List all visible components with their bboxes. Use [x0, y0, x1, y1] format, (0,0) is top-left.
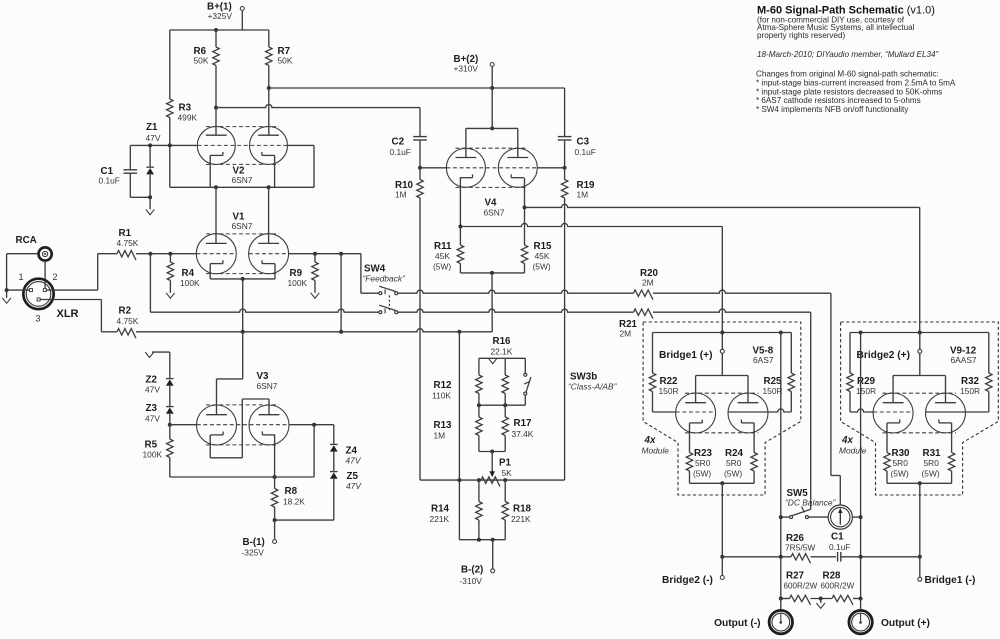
- svg-text:45K: 45K: [435, 251, 450, 261]
- svg-text:C2: C2: [392, 137, 405, 148]
- svg-text:Bridge1 (-): Bridge1 (-): [925, 575, 976, 586]
- svg-text:0.1uF: 0.1uF: [390, 147, 411, 157]
- svg-text:R8: R8: [285, 486, 298, 497]
- svg-text:1M: 1M: [395, 190, 407, 200]
- svg-text:(5W): (5W): [724, 469, 742, 479]
- svg-text:221K: 221K: [511, 514, 531, 524]
- svg-text:2M: 2M: [642, 278, 654, 288]
- svg-text:“DC Balance”: “DC Balance”: [785, 498, 836, 508]
- svg-text:47V: 47V: [145, 414, 160, 424]
- svg-text:47V: 47V: [145, 385, 160, 395]
- svg-text:100K: 100K: [288, 278, 308, 288]
- svg-text:(5W): (5W): [891, 469, 909, 479]
- svg-text:0.1uF: 0.1uF: [99, 176, 120, 186]
- svg-text:Changes from original M-60 sig: Changes from original M-60 signal-path s…: [756, 70, 939, 79]
- svg-text:5R0: 5R0: [924, 458, 940, 468]
- svg-text:22.1K: 22.1K: [491, 347, 513, 357]
- svg-text:R16: R16: [493, 336, 512, 347]
- svg-text:4.75K: 4.75K: [117, 316, 139, 326]
- svg-text:“Class-A/AB”: “Class-A/AB”: [568, 382, 618, 392]
- svg-text:150R: 150R: [763, 386, 783, 396]
- svg-text:47V: 47V: [146, 133, 161, 143]
- svg-text:R18: R18: [513, 504, 532, 515]
- svg-text:(5W): (5W): [922, 469, 940, 479]
- svg-text:6SN7: 6SN7: [232, 221, 253, 231]
- svg-text:B-(2): B-(2): [461, 565, 483, 576]
- svg-text:+310V: +310V: [454, 64, 479, 74]
- svg-text:RCA: RCA: [16, 235, 37, 246]
- svg-text:37.4K: 37.4K: [512, 429, 534, 439]
- svg-text:1: 1: [19, 272, 24, 282]
- svg-text:5R0: 5R0: [893, 458, 909, 468]
- svg-text:0.1uF: 0.1uF: [829, 542, 850, 552]
- svg-text:100K: 100K: [143, 450, 163, 460]
- svg-text:(5W): (5W): [693, 469, 711, 479]
- svg-text:Module: Module: [642, 446, 670, 456]
- svg-text:* 6AS7 cathode resistors incre: * 6AS7 cathode resistors increased to 5-…: [756, 96, 921, 105]
- svg-text:6AS7: 6AS7: [753, 355, 774, 365]
- svg-text:47V: 47V: [346, 456, 362, 466]
- svg-text:150R: 150R: [659, 386, 679, 396]
- svg-text:C1: C1: [831, 532, 844, 543]
- svg-text:C3: C3: [577, 137, 590, 148]
- svg-text:property rights reserved): property rights reserved): [757, 31, 845, 40]
- svg-text:R13: R13: [434, 420, 453, 431]
- svg-text:R14: R14: [431, 504, 450, 515]
- svg-text:600R/2W: 600R/2W: [821, 582, 855, 591]
- svg-text:(5W): (5W): [533, 262, 551, 272]
- svg-text:499K: 499K: [178, 113, 198, 123]
- svg-text:4.75K: 4.75K: [117, 238, 139, 248]
- svg-text:6SN7: 6SN7: [484, 208, 505, 218]
- svg-text:+325V: +325V: [208, 11, 233, 21]
- svg-text:Output (-): Output (-): [714, 618, 760, 629]
- svg-text:1M: 1M: [434, 431, 446, 441]
- svg-text:100K: 100K: [180, 278, 200, 288]
- svg-text:6SN7: 6SN7: [257, 381, 278, 391]
- svg-text:-325V: -325V: [242, 548, 265, 558]
- svg-text:R28: R28: [823, 571, 842, 582]
- svg-text:Module: Module: [839, 446, 867, 456]
- svg-text:Bridge2 (-): Bridge2 (-): [662, 575, 713, 586]
- svg-text:6SN7: 6SN7: [232, 175, 253, 185]
- svg-text:Bridge2 (+): Bridge2 (+): [857, 350, 911, 361]
- svg-text:2M: 2M: [620, 329, 632, 339]
- svg-text:7R5/5W: 7R5/5W: [785, 543, 815, 553]
- svg-text:2: 2: [53, 272, 58, 282]
- svg-text:110K: 110K: [432, 391, 451, 401]
- svg-text:18.2K: 18.2K: [283, 497, 305, 507]
- svg-text:1M: 1M: [577, 190, 589, 200]
- svg-text:0.1uF: 0.1uF: [575, 147, 596, 157]
- svg-text:P1: P1: [499, 458, 512, 469]
- svg-text:150R: 150R: [960, 386, 980, 396]
- svg-text:3: 3: [36, 314, 41, 324]
- svg-text:“Feedback”: “Feedback”: [363, 274, 407, 284]
- svg-text:600R/2W: 600R/2W: [784, 582, 818, 591]
- svg-text:5R0: 5R0: [695, 458, 711, 468]
- svg-text:Z3: Z3: [146, 403, 158, 414]
- svg-text:* input-stage bias-current inc: * input-stage bias-current increased fro…: [756, 78, 956, 87]
- svg-text:5K: 5K: [502, 468, 513, 478]
- svg-text:R2: R2: [119, 306, 132, 317]
- svg-text:50K: 50K: [194, 56, 209, 66]
- svg-text:150R: 150R: [856, 386, 876, 396]
- svg-text:-310V: -310V: [460, 576, 483, 586]
- svg-text:XLR: XLR: [57, 308, 79, 320]
- svg-text:Bridge1 (+): Bridge1 (+): [659, 350, 713, 361]
- svg-text:4x: 4x: [644, 435, 656, 446]
- svg-text:Z1: Z1: [146, 122, 158, 133]
- svg-text:221K: 221K: [430, 514, 450, 524]
- svg-text:* SW4 implements NFB on/off fu: * SW4 implements NFB on/off functionalit…: [756, 105, 909, 114]
- svg-text:45K: 45K: [535, 251, 550, 261]
- svg-text:Output (+): Output (+): [881, 618, 930, 629]
- svg-text:18-March-2010; DIYaudio member: 18-March-2010; DIYaudio member, “Mullard…: [757, 50, 938, 59]
- svg-text:R27: R27: [786, 571, 805, 582]
- svg-text:6AAS7: 6AAS7: [951, 355, 977, 365]
- svg-text:47V: 47V: [346, 481, 362, 491]
- svg-text:R12: R12: [434, 380, 453, 391]
- svg-text:4x: 4x: [841, 435, 853, 446]
- svg-text:(5W): (5W): [433, 262, 451, 272]
- svg-text:50K: 50K: [278, 56, 293, 66]
- svg-text:5R0: 5R0: [726, 458, 742, 468]
- svg-text:* input-stage plate resistors: * input-stage plate resistors decreased …: [756, 87, 942, 96]
- svg-text:B-(1): B-(1): [243, 537, 265, 548]
- svg-text:R17: R17: [514, 418, 533, 429]
